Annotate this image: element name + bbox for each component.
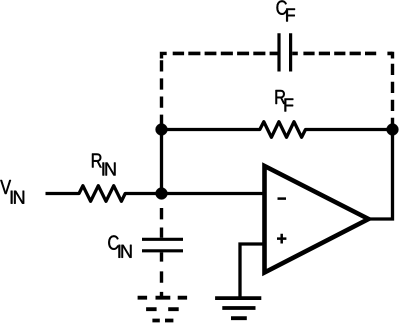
wire: dashed from CIN down to dashed ground (160, 252, 163, 297)
resistor RIN with input wire y=193.5 (46, 186, 265, 202)
wire: dashed top horizontal, left of CF (173, 52, 278, 56)
resistor RF with wire y=129.5 (162, 122, 393, 138)
op-amp plus input symbol (277, 234, 286, 244)
label CIN (108, 235, 131, 257)
node B: junction dot right (output node) (387, 124, 399, 136)
wire: vertical from RF node down to input node (160, 130, 163, 194)
op-amp U1 (265, 166, 369, 273)
wire: non-inverting input to ground (240, 244, 265, 297)
label CF (277, 0, 295, 21)
wire: dashed feedback branch, right vertical (391, 52, 394, 125)
capacitor CIN (142, 239, 183, 251)
label VIN (0, 180, 24, 204)
ground (dashed) below CIN (138, 298, 187, 321)
op-amp minus input symbol (278, 197, 287, 200)
node A: junction dot left (inverting input node top) (156, 124, 168, 136)
capacitor CF (279, 33, 291, 71)
ground (solid) at op-amp + input (215, 298, 261, 318)
label RF (276, 90, 294, 112)
wire: dashed feedback branch, left vertical (node A to CF top line) (162, 52, 167, 125)
wire: dashed from input node down to CIN (160, 208, 163, 238)
wire: dashed top horizontal, right of CF (292, 52, 392, 56)
node C: input node junction dot (156, 188, 168, 200)
wire: op-amp output up to node B (369, 130, 393, 220)
label RIN (92, 154, 116, 176)
